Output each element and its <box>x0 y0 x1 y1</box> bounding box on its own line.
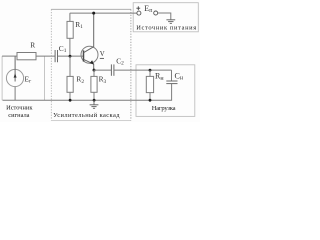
dash under V <box>100 57 104 59</box>
resistor R <box>17 53 36 60</box>
ground symbol power <box>166 19 175 21</box>
source arrowhead <box>14 73 17 77</box>
wire R3 bottom <box>93 92 95 100</box>
transistor base bar <box>83 50 85 61</box>
resistor R2 <box>67 76 73 92</box>
top power rail wire <box>70 12 137 14</box>
power terminal 1 <box>137 11 141 15</box>
wire Rn top <box>149 70 151 76</box>
capacitor C1 <box>54 50 56 62</box>
svg-text:Источник: Источник <box>6 105 33 112</box>
wire C1 to base <box>58 55 84 57</box>
signal source box <box>1 56 3 100</box>
wire terminal 2 to ground <box>158 13 171 20</box>
wire R2 top <box>69 56 71 76</box>
svg-text:V: V <box>100 51 105 58</box>
wire R2 bottom <box>69 92 71 100</box>
ground symbol amplifier <box>93 100 95 105</box>
transistor V circle <box>81 46 98 63</box>
source Eg circle <box>6 69 23 86</box>
resistor Rn <box>146 76 153 92</box>
load box <box>136 65 195 117</box>
node base divider dot <box>69 55 72 58</box>
transistor collector lead <box>84 13 94 53</box>
node Rn rail dot <box>149 99 152 102</box>
svg-text:сигнала: сигнала <box>8 112 29 119</box>
svg-text:Нагрузка: Нагрузка <box>152 105 176 112</box>
resistor R1 <box>67 21 73 38</box>
transistor emitter lead <box>84 59 94 70</box>
node R2 rail dot <box>69 99 72 102</box>
node collector rail dot <box>92 12 95 15</box>
svg-text:R: R <box>30 41 35 50</box>
svg-text:Источник питания: Источник питания <box>136 24 196 31</box>
wire box corner to R <box>2 55 17 57</box>
amplifier stage dashed box <box>51 8 131 10</box>
wire R to C1 <box>36 55 55 57</box>
resistor R3 <box>91 76 97 92</box>
wire emitter to C2 <box>94 69 111 71</box>
node load input dot <box>149 69 152 72</box>
node R3 rail dot <box>93 99 96 102</box>
power supply plus sign <box>136 7 140 9</box>
wire emitter to R3 <box>93 70 95 76</box>
capacitor Cn plates <box>166 80 177 82</box>
power supply box <box>133 3 198 32</box>
wire Rn bottom <box>149 93 151 101</box>
wire C2 to load <box>114 69 172 71</box>
source arrow shaft <box>14 56 16 81</box>
svg-text:Усилительный каскад: Усилительный каскад <box>53 112 120 119</box>
wire R1 bottom to base node <box>69 38 71 56</box>
power terminal 2 <box>154 11 158 15</box>
capacitor C2 <box>110 64 112 75</box>
wire R1 top riser <box>69 13 71 21</box>
wire source bottom lead <box>14 87 16 101</box>
emitter arrowhead <box>90 60 94 64</box>
bottom rail wire <box>3 84 172 101</box>
node emitter dot <box>93 69 96 72</box>
capacitor Cn riser <box>171 70 173 81</box>
